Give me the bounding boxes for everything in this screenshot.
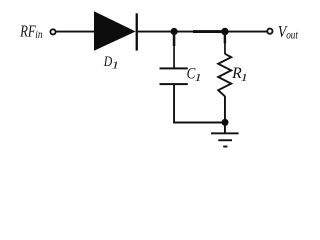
output terminal [267,29,272,34]
svg-text:1: 1 [241,71,248,84]
bottom junction dot [222,119,229,126]
wire input to diode [57,31,95,33]
label C1 [187,65,202,83]
wire R1 down to bottom node [224,96,226,122]
svg-text:1: 1 [112,58,119,71]
input terminal [50,29,55,34]
node V_out label [278,22,299,41]
wire stub node A thick [173,33,176,46]
node RF_in label [19,21,42,41]
node B junction dot [221,28,228,35]
svg-text:1: 1 [194,71,201,84]
svg-text:in: in [35,27,42,41]
wire node B down to R1 [224,33,226,54]
label D1 [103,54,119,71]
wire C1 down and right to bottom node [174,85,225,123]
svg-text:out: out [286,27,298,41]
node A junction dot [171,28,178,35]
wire node A down to C1 [173,33,175,68]
diode D1 [94,11,138,51]
wire stub node B thick [224,33,226,44]
resistor R1 zigzag [218,54,231,97]
capacitor C1 [160,67,188,85]
wire diode to output [138,31,268,33]
ground [211,124,239,148]
svg-text:RF: RF [19,21,36,40]
wire thick segment node A to node B [193,30,223,33]
label R1 [231,65,248,83]
